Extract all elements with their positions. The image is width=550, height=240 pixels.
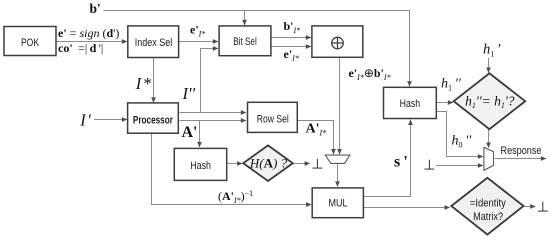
- wire b' branch down to Bit Sel: [244, 11, 246, 26]
- svg-text:Bit Sel: Bit Sel: [233, 36, 257, 48]
- svg-text:Matrix?: Matrix?: [473, 211, 503, 223]
- svg-text:co' =| d '|: co' =| d '|: [58, 41, 103, 55]
- svg-text:⊥: ⊥: [423, 158, 435, 173]
- svg-text:Hash: Hash: [190, 160, 211, 172]
- svg-text:Index Sel: Index Sel: [135, 37, 173, 49]
- svg-text:h0 '': h0 '': [452, 134, 473, 150]
- wire Row Sel to mux1 (A'_I*): [298, 121, 334, 155]
- wire A' branch down to Hash2: [199, 121, 201, 148]
- svg-text:⊥: ⊥: [311, 158, 323, 173]
- mux1 trapezoid: [325, 155, 350, 163]
- box Processor: [128, 103, 179, 133]
- wire Bit Sel to XOR lower (e'_I*): [272, 46, 312, 48]
- wire bottom-tack into mux2: [436, 165, 483, 167]
- svg-text:A': A': [182, 124, 198, 141]
- svg-text:I ': I ': [79, 110, 91, 129]
- box Index Sel: [128, 26, 179, 58]
- box Row Sel: [248, 102, 298, 132]
- svg-text:Row Sel: Row Sel: [257, 114, 289, 126]
- svg-text:Hash: Hash: [400, 98, 421, 110]
- wire Index Sel to Bit Sel: [179, 41, 218, 43]
- svg-text:b': b': [90, 1, 101, 16]
- wire b' top horizontal: [104, 11, 410, 87]
- box Hash2: [174, 148, 226, 180]
- wire POK to Index Sel: [57, 41, 128, 43]
- wire Processor to Row Sel lower (A'): [180, 120, 247, 122]
- wire Hash1 to h-diamond (h1''): [436, 102, 453, 104]
- diamond h1''=h1'?: [454, 73, 526, 129]
- svg-text:s ': s ': [394, 154, 408, 171]
- wire MUL to Identity diamond: [364, 207, 450, 209]
- svg-text:e' = sign (d'): e' = sign (d'): [58, 26, 119, 40]
- wire Bit Sel to XOR upper (b'_I*): [272, 37, 312, 39]
- wire Hash2 to H(A) diamond: [227, 163, 242, 165]
- svg-text:MUL: MUL: [329, 197, 348, 209]
- wire mux2 to Response: [495, 158, 547, 160]
- diamond Identity Matrix: [451, 178, 523, 235]
- wire Index Sel down to Processor (I*): [153, 58, 155, 103]
- svg-text:Processor: Processor: [133, 114, 174, 126]
- box Bit Sel: [219, 26, 271, 56]
- wire h1' into h-diamond top: [488, 58, 490, 73]
- wire I' into Processor: [94, 119, 127, 121]
- wire I'' branch up to Bit Sel: [201, 49, 219, 113]
- svg-text:POK: POK: [21, 37, 40, 49]
- svg-text:h1 '': h1 '': [441, 76, 462, 92]
- wire H(A) diamond to bottom tack: [293, 163, 310, 165]
- wire Processor to Row Sel upper (I''): [180, 112, 247, 114]
- svg-text:H(A) ?: H(A) ?: [249, 156, 288, 171]
- xor symbol: [332, 37, 344, 49]
- wire mux1 to MUL: [337, 163, 339, 186]
- box POK: [4, 27, 56, 56]
- wire MUL to Hash1 via s': [364, 120, 411, 197]
- wire Processor bottom to MUL: [152, 133, 312, 204]
- svg-text:=Identity: =Identity: [470, 198, 506, 210]
- svg-text:⊥: ⊥: [537, 200, 549, 215]
- diamond H(A)?: [243, 145, 293, 181]
- box Hash1: [384, 87, 437, 118]
- svg-text:I'': I'': [182, 84, 196, 103]
- box XOR: [312, 26, 363, 57]
- wire Hash1 h0'' to mux2: [436, 112, 483, 157]
- mux2 trapezoid: [484, 147, 494, 170]
- svg-text:I *: I *: [135, 74, 152, 93]
- wire h-diamond bottom to mux2: [488, 129, 490, 147]
- wire Identity diamond to bottom tack: [524, 206, 536, 208]
- svg-text:Response: Response: [501, 145, 542, 157]
- box MUL: [312, 188, 363, 218]
- wire XOR down to mux1: [339, 58, 341, 155]
